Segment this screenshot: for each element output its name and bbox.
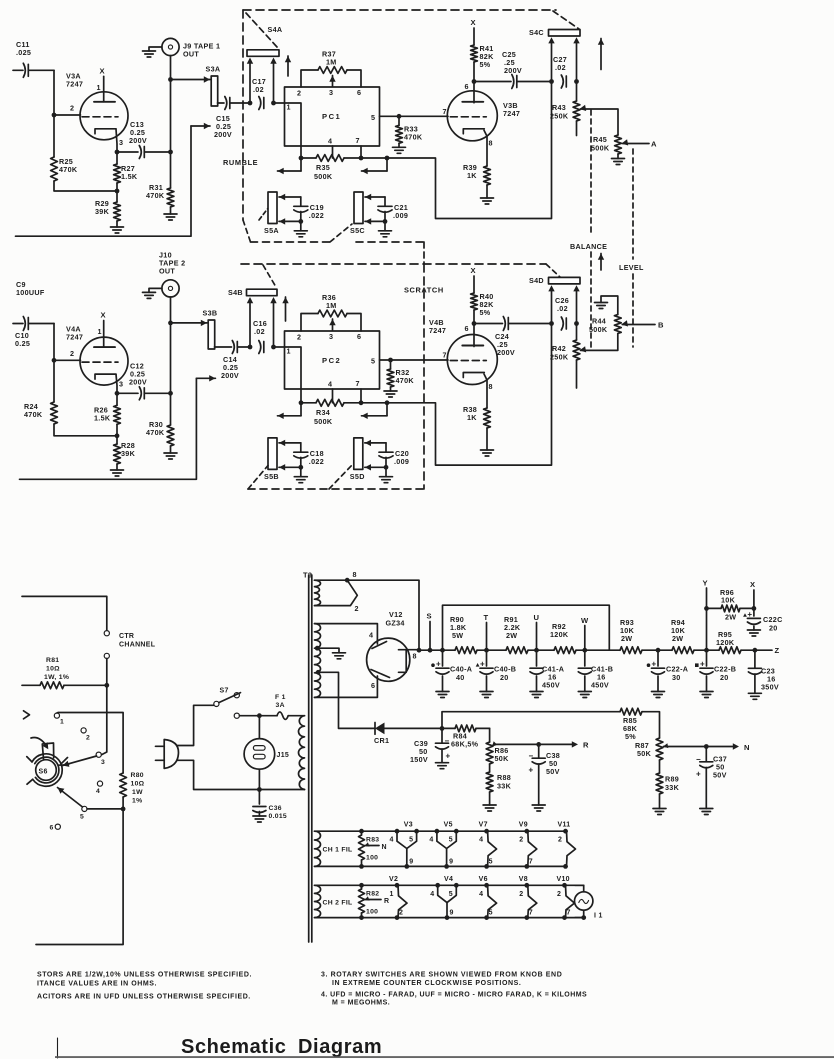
lamp I1 <box>575 885 603 920</box>
svg-text:4: 4 <box>429 837 433 844</box>
title Schematic Diagram <box>181 1036 382 1058</box>
svg-text:1.5K: 1.5K <box>94 413 111 422</box>
svg-text:5%: 5% <box>480 308 491 317</box>
svg-text:1: 1 <box>287 347 291 356</box>
svg-text:−: − <box>529 752 534 761</box>
svg-text:V3: V3 <box>404 822 413 829</box>
svg-text:3: 3 <box>329 332 333 341</box>
potentiometer R87 <box>635 738 750 760</box>
svg-text:S3B: S3B <box>203 309 218 318</box>
node Y <box>703 579 709 653</box>
capacitor C18 <box>279 440 324 483</box>
heater V7 <box>479 822 497 869</box>
notes text right <box>321 972 587 1007</box>
svg-text:68K,5%: 68K,5% <box>451 740 479 749</box>
capacitor C16 <box>253 319 267 354</box>
svg-text:470K: 470K <box>404 132 423 141</box>
svg-text:1M: 1M <box>326 58 337 67</box>
wire <box>57 713 123 774</box>
resistor R32 <box>380 358 449 397</box>
svg-text:1K: 1K <box>467 171 477 180</box>
capacitor C17 <box>252 77 266 110</box>
resistor R88 <box>483 764 511 811</box>
svg-text:20: 20 <box>769 624 778 633</box>
terminal CTR CHANNEL <box>104 631 156 659</box>
switch S4A <box>247 25 282 56</box>
switch S5D <box>350 438 365 481</box>
capacitor C38 <box>529 742 561 811</box>
network PC1 <box>285 87 380 146</box>
svg-text:7: 7 <box>356 379 360 388</box>
svg-text:V8: V8 <box>519 876 528 883</box>
svg-text:1K: 1K <box>467 413 477 422</box>
svg-text:200V: 200V <box>504 66 522 75</box>
svg-text:10Ω: 10Ω <box>46 666 60 673</box>
resistor R24 <box>24 360 117 436</box>
triode V4A <box>66 311 128 389</box>
svg-text:2: 2 <box>558 837 562 844</box>
svg-text:250K: 250K <box>550 353 569 362</box>
svg-text:−: − <box>445 737 450 746</box>
resistor R85 <box>620 708 660 741</box>
svg-text:350V: 350V <box>761 683 779 692</box>
wire <box>170 56 172 80</box>
switch S5C <box>350 192 365 235</box>
capacitor C14 <box>215 341 251 381</box>
svg-text:S7: S7 <box>220 688 229 695</box>
resistor R38 <box>463 374 494 456</box>
triode V4B <box>429 318 497 391</box>
svg-text:1W: 1W <box>132 789 143 796</box>
svg-text:R83: R83 <box>366 837 379 844</box>
svg-text:−: − <box>696 755 701 764</box>
svg-text:V11: V11 <box>558 822 571 829</box>
transformer primary <box>299 716 305 790</box>
capacitor C22-B <box>695 650 736 697</box>
wire <box>387 82 552 219</box>
svg-text:R34: R34 <box>316 408 330 417</box>
rotary switch S6 <box>27 713 105 832</box>
svg-text:2: 2 <box>86 735 90 742</box>
svg-text:9: 9 <box>450 910 454 917</box>
svg-text:8: 8 <box>353 570 357 579</box>
svg-text:4: 4 <box>390 837 394 844</box>
arrow <box>600 254 602 271</box>
svg-text:V6: V6 <box>479 876 488 883</box>
svg-text:J15: J15 <box>277 752 290 759</box>
svg-text:2: 2 <box>297 333 301 342</box>
svg-text:450V: 450V <box>591 681 609 690</box>
svg-text:5: 5 <box>409 837 413 844</box>
svg-text:RUMBLE: RUMBLE <box>223 158 258 167</box>
svg-text:M = MEGOHMS.: M = MEGOHMS. <box>332 1000 390 1007</box>
svg-text:R81: R81 <box>46 657 59 664</box>
svg-text:.022: .022 <box>309 211 324 220</box>
svg-text:V9: V9 <box>519 822 528 829</box>
svg-text:1M: 1M <box>326 301 337 310</box>
svg-text:7: 7 <box>529 858 533 865</box>
potentiometer R43 <box>550 82 618 136</box>
wire <box>548 285 579 326</box>
switch S7 <box>214 688 241 719</box>
wire <box>548 37 579 84</box>
svg-text:V2: V2 <box>389 876 398 883</box>
svg-text:2: 2 <box>519 837 523 844</box>
arrow <box>285 297 287 321</box>
svg-text:.02: .02 <box>557 304 568 313</box>
resistor R34 <box>299 389 390 426</box>
svg-text:CH 2 FIL: CH 2 FIL <box>323 900 353 907</box>
svg-text:Schematic: Schematic <box>181 1036 286 1058</box>
switch S4C <box>529 28 580 37</box>
wire <box>473 82 475 103</box>
svg-text:40: 40 <box>456 673 465 682</box>
svg-text:IN EXTREME COUNTER CLOCKWISE P: IN EXTREME COUNTER CLOCKWISE POSITIONS. <box>332 980 521 987</box>
svg-text:R82: R82 <box>366 891 379 898</box>
svg-text:6: 6 <box>357 88 361 97</box>
wire <box>177 760 305 789</box>
capacitor C25 <box>474 50 552 89</box>
resistor R91 <box>504 615 528 654</box>
resistor R36 <box>301 293 361 331</box>
resistor R39 <box>463 130 494 204</box>
svg-text:6: 6 <box>371 681 375 690</box>
svg-text:+: + <box>652 660 657 669</box>
capacitor C23 <box>748 650 779 699</box>
svg-text:50K: 50K <box>495 754 510 763</box>
svg-text:6: 6 <box>465 324 469 333</box>
resistor R41 <box>471 18 495 84</box>
heater V11 <box>558 822 576 869</box>
svg-text:50K: 50K <box>637 749 652 758</box>
svg-text:CR1: CR1 <box>374 736 389 745</box>
svg-text:30: 30 <box>672 673 681 682</box>
capacitor C41-A <box>530 650 564 697</box>
svg-text:N: N <box>744 743 750 752</box>
svg-text:470K: 470K <box>396 376 415 385</box>
svg-text:R: R <box>384 898 389 905</box>
resistor R84 <box>442 725 490 749</box>
dashed switch boundary scratch <box>241 264 560 489</box>
svg-text:150V: 150V <box>410 755 428 764</box>
svg-text:39K: 39K <box>121 449 136 458</box>
svg-text:39K: 39K <box>95 207 110 216</box>
svg-text:7247: 7247 <box>503 109 520 118</box>
svg-text:R80: R80 <box>131 772 144 779</box>
svg-text:5%: 5% <box>480 60 491 69</box>
wire <box>177 705 214 745</box>
wire <box>240 715 278 717</box>
arrow <box>300 403 302 416</box>
svg-text:SCRATCH: SCRATCH <box>404 286 444 295</box>
resistor R30 <box>146 393 177 459</box>
transformer winding CH1 FIL <box>315 831 568 866</box>
capacitor C22C <box>743 608 782 636</box>
heater V5 <box>429 822 458 869</box>
wire <box>247 297 277 349</box>
resistor R26 <box>94 393 120 438</box>
svg-text:3A: 3A <box>276 702 285 709</box>
svg-text:120K: 120K <box>550 630 569 639</box>
svg-text:470K: 470K <box>146 428 165 437</box>
capacitor C15 <box>214 97 250 140</box>
svg-text:0.015: 0.015 <box>269 813 288 820</box>
svg-text:X: X <box>471 266 476 275</box>
capacitor C22-A <box>647 648 689 698</box>
svg-text:1: 1 <box>98 327 102 336</box>
svg-text:500K: 500K <box>591 144 610 153</box>
switch S5B <box>264 438 279 481</box>
resistor R31 <box>146 152 177 220</box>
svg-text:X: X <box>100 66 105 75</box>
svg-text:ITANCE VALUES ARE IN OHMS.: ITANCE VALUES ARE IN OHMS. <box>37 981 157 988</box>
svg-text:1.5K: 1.5K <box>121 172 138 181</box>
svg-text:1%: 1% <box>132 798 142 805</box>
heater V10 <box>557 876 575 920</box>
svg-text:N: N <box>382 844 387 851</box>
svg-text:Diagram: Diagram <box>298 1036 382 1058</box>
resistor R82 <box>359 883 390 920</box>
svg-text:200V: 200V <box>129 377 147 386</box>
svg-text:2W: 2W <box>672 634 683 643</box>
svg-text:OUT: OUT <box>183 50 199 59</box>
resistor R28 <box>111 436 136 476</box>
svg-text:100: 100 <box>366 909 378 916</box>
svg-text:2: 2 <box>70 349 74 358</box>
plug P1 <box>156 740 179 769</box>
svg-text:8: 8 <box>489 382 493 391</box>
svg-text:6: 6 <box>50 825 54 832</box>
svg-text:250K: 250K <box>550 112 569 121</box>
svg-text:3: 3 <box>101 759 105 766</box>
svg-text:9: 9 <box>409 858 413 865</box>
resistor R25 <box>51 115 117 191</box>
svg-text:6: 6 <box>357 332 361 341</box>
svg-text:1W, 1%: 1W, 1% <box>44 674 69 681</box>
transformer winding HV <box>315 624 378 698</box>
svg-text:S4D: S4D <box>529 276 544 285</box>
svg-text:2: 2 <box>70 104 74 113</box>
svg-text:V10: V10 <box>557 876 570 883</box>
svg-text:7: 7 <box>443 107 447 116</box>
dashed switch boundary <box>243 10 579 264</box>
wire <box>116 129 117 152</box>
svg-text:W: W <box>581 616 589 625</box>
switch S4D <box>529 276 580 285</box>
wire <box>387 324 552 466</box>
svg-text:2W: 2W <box>621 634 632 643</box>
svg-text:100: 100 <box>366 855 378 862</box>
svg-text:CHANNEL: CHANNEL <box>119 642 156 649</box>
svg-text:470K: 470K <box>146 191 165 200</box>
svg-text:F 1: F 1 <box>275 694 286 701</box>
arrow <box>386 403 388 416</box>
svg-text:X: X <box>101 311 106 320</box>
wire <box>442 712 620 729</box>
capacitor C26 <box>555 296 569 330</box>
svg-text:CH 1 FIL: CH 1 FIL <box>323 847 353 854</box>
svg-text:S5A: S5A <box>264 226 279 235</box>
capacitor C39 <box>410 726 451 769</box>
switch S3B <box>171 309 218 350</box>
svg-text:20: 20 <box>500 673 509 682</box>
wire <box>54 70 81 115</box>
svg-text:4: 4 <box>96 788 100 795</box>
jack J9 <box>143 38 221 58</box>
resistor R93 <box>609 618 658 654</box>
notes text <box>37 972 252 1001</box>
switch S5A <box>264 192 279 235</box>
svg-text:S5B: S5B <box>264 472 279 481</box>
svg-text:100UUF: 100UUF <box>16 288 45 297</box>
svg-text:7247: 7247 <box>429 326 446 335</box>
svg-text:S4B: S4B <box>228 288 243 297</box>
resistor R80 <box>120 772 145 811</box>
svg-text:33K: 33K <box>497 782 512 791</box>
svg-text:2: 2 <box>519 891 523 898</box>
resistor R96 <box>707 588 754 622</box>
svg-text:0.25: 0.25 <box>15 339 30 348</box>
resistor R35 <box>299 146 390 181</box>
svg-text:4. UFD = MICRO - FARAD, UUF =: 4. UFD = MICRO - FARAD, UUF = MICRO - MI… <box>321 992 587 999</box>
socket J15 <box>244 716 289 792</box>
svg-text:2: 2 <box>355 604 359 613</box>
svg-text:Y: Y <box>703 579 708 588</box>
svg-text:Z: Z <box>775 646 780 655</box>
wire B+ rail <box>406 648 609 653</box>
svg-text:5: 5 <box>371 357 375 366</box>
svg-text:10Ω: 10Ω <box>131 781 145 788</box>
svg-text:4: 4 <box>328 137 332 146</box>
svg-text:LEVEL: LEVEL <box>619 263 644 272</box>
svg-text:.02: .02 <box>555 63 566 72</box>
svg-text:V4: V4 <box>444 876 453 883</box>
dashed gang line LEVEL <box>619 149 644 347</box>
arrow <box>600 39 602 70</box>
svg-text:5: 5 <box>489 910 493 917</box>
svg-text:T3: T3 <box>303 571 312 580</box>
diode CR1 <box>371 723 442 746</box>
svg-text:3: 3 <box>119 138 123 147</box>
capacitor C21 <box>365 194 408 237</box>
svg-text:2: 2 <box>399 910 403 917</box>
dashed gang line BALANCE <box>570 110 607 348</box>
heater V8 <box>519 876 537 920</box>
svg-text:S4C: S4C <box>529 28 544 37</box>
svg-text:CTR: CTR <box>119 633 134 640</box>
svg-text:500K: 500K <box>314 172 333 181</box>
triode V3B <box>443 82 521 147</box>
svg-text:GZ34: GZ34 <box>386 619 405 628</box>
network PC2 <box>285 331 380 389</box>
svg-text:.025: .025 <box>16 48 31 57</box>
svg-text:1: 1 <box>287 103 291 112</box>
svg-text:2W: 2W <box>725 613 736 622</box>
arrow <box>386 158 388 171</box>
wire <box>106 659 108 686</box>
svg-text:3: 3 <box>329 88 333 97</box>
svg-text:V7: V7 <box>479 822 488 829</box>
svg-text:2W: 2W <box>506 631 517 640</box>
svg-text:V5: V5 <box>444 822 453 829</box>
svg-text:.009: .009 <box>393 211 408 220</box>
capacitor C24 <box>474 317 552 358</box>
svg-text:.009: .009 <box>394 457 409 466</box>
svg-text:470K: 470K <box>59 165 78 174</box>
wire <box>274 347 302 403</box>
arrow <box>287 56 289 76</box>
svg-text:+: + <box>747 610 752 619</box>
svg-text:X: X <box>750 580 755 589</box>
svg-text:7247: 7247 <box>66 79 83 88</box>
svg-text:5: 5 <box>449 891 453 898</box>
svg-text:4: 4 <box>430 891 434 898</box>
svg-text:S5C: S5C <box>350 226 365 235</box>
svg-text:200V: 200V <box>221 371 239 380</box>
svg-text:2: 2 <box>297 89 301 98</box>
svg-text:500K: 500K <box>314 417 333 426</box>
wire <box>22 596 107 630</box>
capacitor C11 <box>13 40 54 77</box>
svg-text:STORS ARE 1/2W,10% UNLESS OTHE: STORS ARE 1/2W,10% UNLESS OTHERWISE SPEC… <box>37 972 252 979</box>
svg-text:+: + <box>700 660 705 669</box>
capacitor C10 <box>13 280 54 348</box>
resistor R92 <box>550 622 576 654</box>
svg-text:5: 5 <box>489 858 493 865</box>
svg-text:1: 1 <box>60 719 64 726</box>
svg-text:S5D: S5D <box>350 472 365 481</box>
svg-text:C36: C36 <box>269 805 282 812</box>
capacitor C13 <box>115 120 173 159</box>
svg-text:4: 4 <box>479 837 483 844</box>
svg-text:5: 5 <box>80 814 84 821</box>
transformer winding 8-2 <box>315 570 359 613</box>
svg-text:+: + <box>480 660 485 669</box>
svg-text:7: 7 <box>567 910 571 917</box>
svg-text:A: A <box>651 140 657 149</box>
svg-text:470K: 470K <box>24 410 43 419</box>
svg-text:33K: 33K <box>665 783 680 792</box>
capacitor C36 <box>253 790 287 823</box>
triode V3A <box>66 66 128 147</box>
page marks <box>55 1038 834 1058</box>
svg-text:S4A: S4A <box>268 25 283 34</box>
svg-text:+: + <box>696 770 701 779</box>
svg-text:T: T <box>484 613 489 622</box>
wire <box>473 324 475 347</box>
ground center tap <box>315 646 346 659</box>
wire bypass <box>443 605 610 650</box>
svg-text:120K: 120K <box>716 638 735 647</box>
resistor R29 <box>95 191 124 233</box>
svg-text:7247: 7247 <box>66 333 83 342</box>
svg-text:20: 20 <box>720 673 729 682</box>
capacitor C19 <box>279 194 324 237</box>
svg-text:5: 5 <box>371 113 375 122</box>
heater V4 <box>430 876 458 920</box>
heater V6 <box>479 876 497 920</box>
svg-text:S: S <box>427 612 432 621</box>
wire <box>24 711 30 719</box>
node X <box>750 580 756 611</box>
switch S4B <box>228 288 277 297</box>
wire <box>36 809 123 945</box>
svg-text:8: 8 <box>413 652 417 661</box>
svg-text:1: 1 <box>390 891 394 898</box>
svg-text:PC2: PC2 <box>322 356 341 365</box>
svg-text:X: X <box>471 18 476 27</box>
svg-text:+: + <box>446 752 451 761</box>
